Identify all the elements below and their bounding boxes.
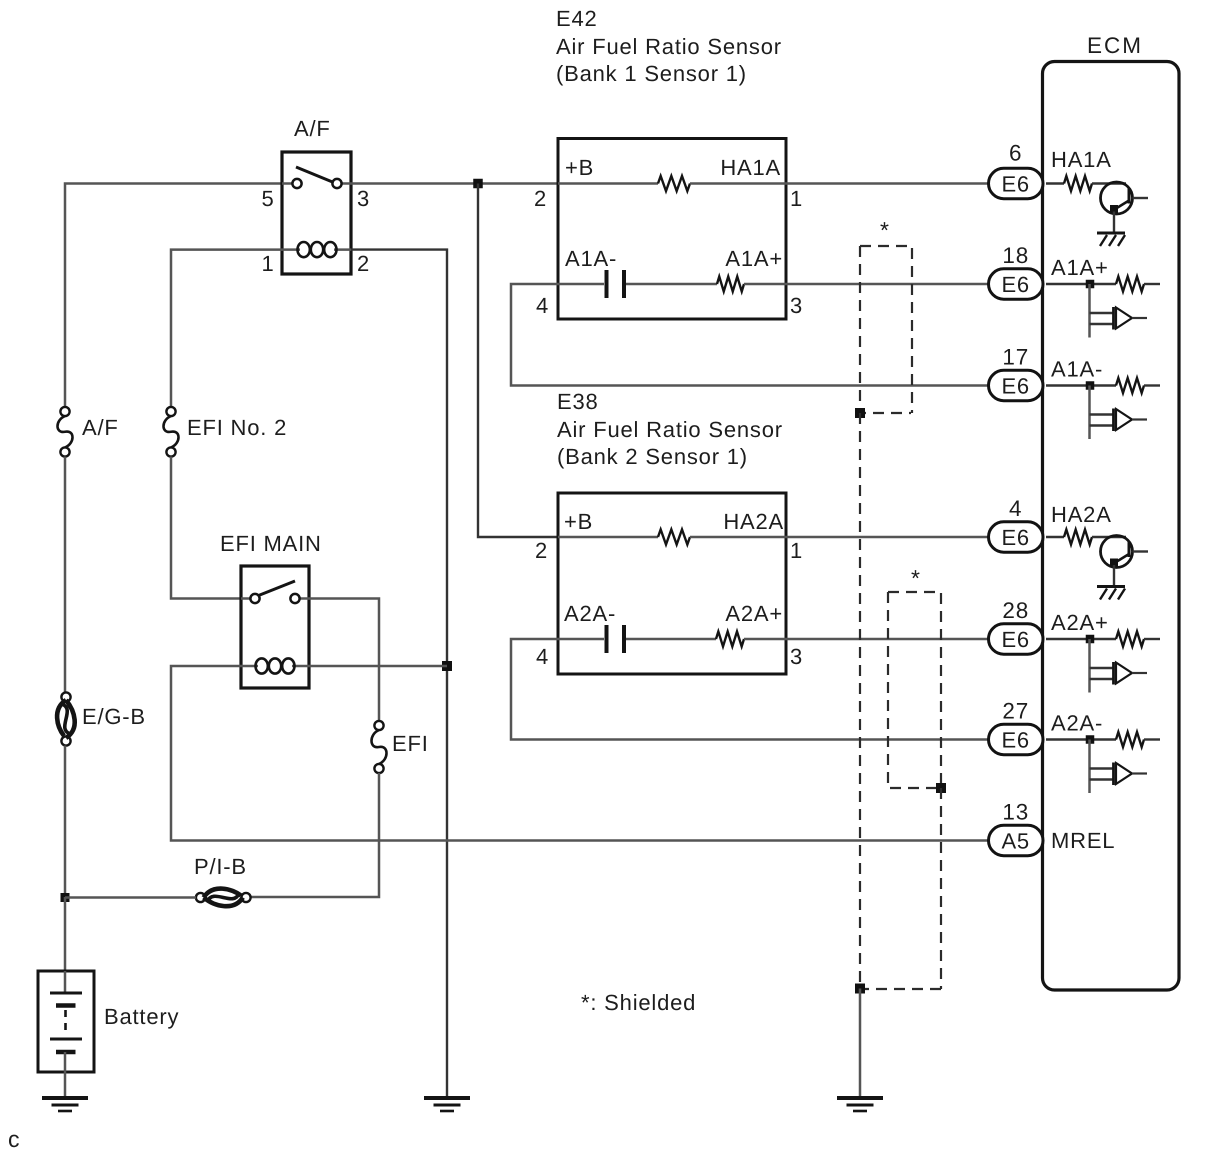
relay EFI MAIN coil [241, 665, 258, 668]
wire E42 pin3 A1A+ to ECM E6-18 [786, 283, 989, 286]
svg-text:28: 28 [1002, 598, 1029, 623]
wire E42 pin4 A1A- to ECM E6-17 [511, 284, 989, 386]
svg-text:Air Fuel Ratio Sensor: Air Fuel Ratio Sensor [557, 417, 783, 442]
node shield bank2 [936, 783, 946, 793]
fuse A/F [60, 407, 69, 416]
svg-text:*: * [911, 565, 921, 591]
op-amp buffer A1A- [1088, 386, 1091, 440]
svg-text:E6: E6 [1001, 272, 1030, 297]
svg-text:HA1A: HA1A [720, 155, 781, 180]
svg-text:2: 2 [535, 538, 548, 563]
svg-text:13: 13 [1002, 800, 1029, 825]
svg-text:+B: +B [565, 155, 594, 180]
ECM box [1043, 62, 1180, 991]
svg-text:EFI MAIN: EFI MAIN [220, 531, 322, 556]
svg-text:A/F: A/F [82, 415, 119, 440]
connector E6 pin 4 [989, 522, 1044, 552]
wire relay A/F pin 2 down to ground (x=447 bus) [351, 250, 447, 1096]
svg-text:27: 27 [1002, 699, 1029, 724]
transistor HA2A driver [1092, 536, 1126, 538]
svg-text:HA2A: HA2A [723, 509, 784, 534]
svg-text:E38: E38 [557, 389, 599, 414]
wire EFI MAIN switch to EFI fuse [309, 599, 379, 722]
node A2A- sense [1086, 735, 1095, 744]
svg-text:3: 3 [790, 293, 803, 318]
node shield ground junction [855, 984, 865, 994]
svg-text:A1A+: A1A+ [725, 246, 783, 271]
svg-text:ECM: ECM [1087, 33, 1143, 58]
connector A5 pin 13 [989, 825, 1044, 855]
svg-text:EFI: EFI [392, 731, 429, 756]
E42 cell resistor [717, 277, 744, 292]
svg-text:1: 1 [261, 251, 274, 276]
E38 capacitor [558, 638, 604, 641]
svg-text:4: 4 [536, 644, 549, 669]
fusible link P/I-B [196, 893, 205, 902]
svg-text:A2A+: A2A+ [725, 601, 783, 626]
relay A/F coil pins 1-2 [282, 248, 300, 251]
svg-text:3: 3 [790, 644, 803, 669]
svg-text:18: 18 [1002, 243, 1029, 268]
relay A/F box [282, 152, 351, 274]
svg-text:1: 1 [790, 186, 803, 211]
svg-text:17: 17 [1002, 345, 1029, 370]
svg-text:(Bank 2 Sensor 1): (Bank 2 Sensor 1) [557, 444, 748, 469]
svg-text:A2A-: A2A- [564, 601, 616, 626]
ECM A1A+ wire resistor [1046, 283, 1116, 285]
ECM HA1A resistor [1046, 182, 1064, 184]
connector E6 pin 18 [989, 269, 1044, 299]
battery internal plates [64, 971, 67, 993]
battery box [38, 971, 94, 1072]
connector E6 pin 6 [989, 168, 1044, 198]
svg-text:A1A+: A1A+ [1051, 255, 1109, 280]
ground battery [42, 1096, 88, 1100]
svg-text:E6: E6 [1001, 627, 1030, 652]
wire EFI fuse to P/I-B [250, 773, 379, 897]
svg-text:2: 2 [534, 186, 547, 211]
relay EFI MAIN switch contacts [241, 597, 250, 600]
op-amp buffer A2A+ [1088, 639, 1091, 693]
svg-text:E/G-B: E/G-B [82, 704, 146, 729]
shield drain dashed bank2 [940, 788, 942, 989]
ground center (EFI MAIN bus) [424, 1096, 470, 1100]
svg-text:A2A+: A2A+ [1051, 610, 1109, 635]
transistor HA1A driver [1092, 182, 1126, 184]
wire battery positive to A/F relay pin 5 (left vertical bus x=65 top) [65, 184, 282, 408]
node A1A+ sense [1086, 280, 1095, 289]
svg-text:HA2A: HA2A [1051, 502, 1112, 527]
node A1A- sense [1086, 381, 1095, 390]
ECM A1A- wire resistor [1046, 384, 1116, 386]
svg-text:Air Fuel Ratio Sensor: Air Fuel Ratio Sensor [556, 34, 782, 59]
svg-text:A2A-: A2A- [1051, 711, 1103, 736]
svg-text:6: 6 [1009, 141, 1022, 166]
shield dashed box bank1 [860, 246, 912, 413]
svg-text:*: Shielded: *: Shielded [581, 990, 696, 1015]
wire junction to battery + [64, 897, 67, 971]
svg-text:A1A-: A1A- [1051, 357, 1103, 382]
E42 capacitor [558, 283, 604, 286]
wire EFI No.2 fuse to EFI MAIN switch [171, 457, 241, 599]
ECM A2A- wire resistor [1046, 738, 1116, 740]
node EFI MAIN coil to ground bus [442, 661, 452, 671]
svg-text:5: 5 [261, 186, 274, 211]
connector E6 pin 27 [989, 724, 1044, 754]
op-amp buffer A2A- [1088, 740, 1091, 794]
fusible link E/G-B [61, 692, 70, 701]
svg-text:3: 3 [357, 186, 370, 211]
svg-text:E6: E6 [1001, 727, 1030, 752]
svg-text:4: 4 [1009, 496, 1022, 521]
ground shield [837, 1096, 883, 1100]
wire E42 pin1 HA1A to ECM E6-6 [786, 182, 989, 185]
svg-text:2: 2 [357, 251, 370, 276]
svg-text:EFI No. 2: EFI No. 2 [187, 415, 287, 440]
shield drain dashed bank1 [859, 413, 861, 985]
svg-text:c: c [8, 1126, 20, 1152]
sensor E38 box [558, 493, 786, 674]
relay EFI MAIN box [241, 566, 309, 688]
svg-text:E6: E6 [1001, 373, 1030, 398]
ECM HA2A resistor [1046, 536, 1064, 538]
ECM A2A+ wire resistor [1046, 638, 1116, 640]
relay A/F switch contacts 5-3 [282, 182, 292, 185]
svg-text:E42: E42 [556, 6, 598, 31]
fuse EFI No. 2 [166, 407, 175, 416]
svg-text:A1A-: A1A- [565, 246, 617, 271]
wire E38 pin3 A2A+ to ECM E6-28 [786, 638, 989, 641]
svg-text:A/F: A/F [294, 116, 331, 141]
wire E/G-B to battery junction [64, 746, 67, 898]
svg-text:MREL: MREL [1051, 828, 1115, 853]
svg-text:HA1A: HA1A [1051, 147, 1112, 172]
node shield bank1 [855, 408, 865, 418]
wire EFI MAIN coil right to ground bus [309, 665, 447, 668]
svg-text:4: 4 [536, 293, 549, 318]
wire relay A/F pin 3 to E42 +B [351, 182, 558, 185]
svg-text:+B: +B [564, 509, 593, 534]
connector E6 pin 17 [989, 370, 1044, 400]
wire +B branch down to E38 +B [478, 184, 558, 538]
E38 cell resistor [716, 632, 744, 647]
wire E38 pin1 HA2A to ECM E6-4 [786, 536, 989, 539]
connector E6 pin 28 [989, 624, 1044, 654]
wire P/I-B to battery junction [65, 896, 196, 899]
svg-text:A5: A5 [1001, 828, 1030, 853]
wire E38 pin4 A2A- to ECM E6-27 [511, 639, 989, 740]
svg-text:(Bank 1 Sensor 1): (Bank 1 Sensor 1) [556, 61, 747, 86]
wire shield to ground [859, 989, 862, 1097]
svg-text:*: * [880, 217, 890, 243]
sensor E42 box [558, 139, 786, 320]
svg-text:E6: E6 [1001, 171, 1030, 196]
wire relay A/F pin 1 to EFI No.2 fuse [171, 250, 282, 407]
E38 heater wire + resistor [558, 536, 658, 539]
svg-text:Battery: Battery [104, 1004, 179, 1029]
svg-text:1: 1 [790, 538, 803, 563]
fuse EFI [374, 721, 383, 730]
node A2A+ sense [1086, 635, 1095, 644]
svg-text:P/I-B: P/I-B [194, 854, 247, 879]
wire EFI MAIN coil left to MREL (A5) [171, 666, 989, 841]
op-amp buffer A1A+ [1088, 284, 1091, 338]
wire A/F fuse to E/G-B link [64, 457, 67, 693]
E42 heater wire + resistor [558, 182, 658, 185]
node battery junction [61, 893, 70, 902]
node +B branch [473, 179, 483, 189]
svg-text:E6: E6 [1001, 525, 1030, 550]
shield dashed box bank2 [888, 592, 941, 788]
